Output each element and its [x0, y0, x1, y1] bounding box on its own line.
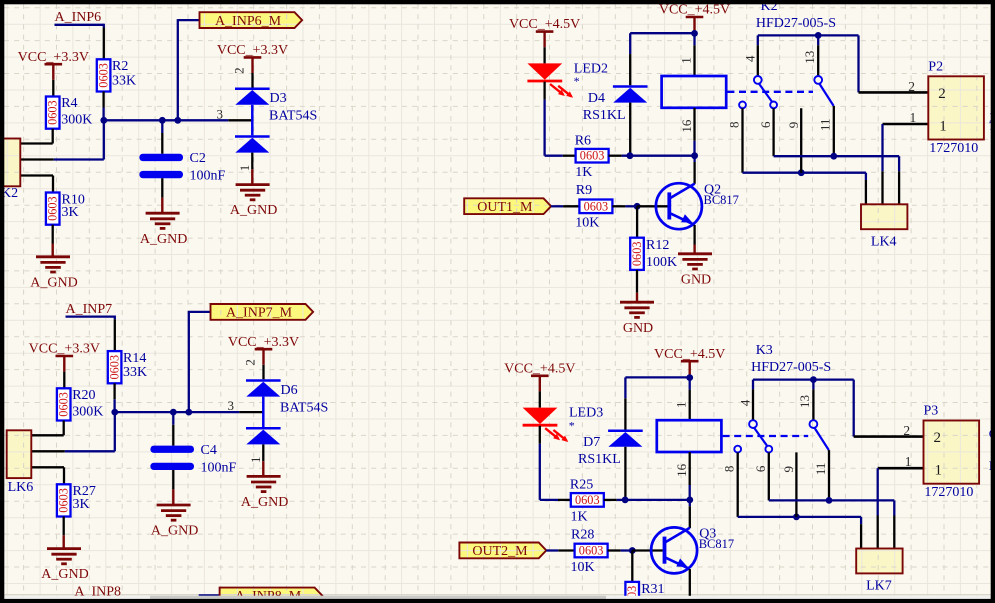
svg-text:33K: 33K — [123, 365, 147, 380]
svg-text:OUT1_M: OUT1_M — [477, 200, 533, 215]
svg-text:A_GND: A_GND — [241, 495, 288, 510]
svg-text:VCC_+4.5V: VCC_+4.5V — [504, 361, 575, 376]
svg-text:100nF: 100nF — [190, 169, 226, 184]
svg-text:HFD27-005-S: HFD27-005-S — [751, 360, 831, 375]
svg-text:0603: 0603 — [46, 100, 60, 125]
svg-text:A_INP6: A_INP6 — [55, 10, 102, 25]
svg-text:BC817: BC817 — [699, 537, 734, 551]
svg-text:10K: 10K — [575, 216, 599, 231]
svg-text:0603: 0603 — [108, 355, 122, 380]
svg-text:A_GND: A_GND — [230, 203, 277, 218]
svg-text:0603: 0603 — [46, 196, 60, 221]
svg-text:9: 9 — [786, 122, 801, 129]
svg-text:1K: 1K — [575, 165, 592, 180]
svg-text:3K: 3K — [62, 205, 79, 220]
svg-text:0603: 0603 — [580, 149, 605, 163]
svg-text:4: 4 — [742, 55, 757, 62]
svg-text:9: 9 — [781, 466, 796, 473]
svg-text:C2: C2 — [190, 151, 206, 166]
svg-text:VCC_+3.3V: VCC_+3.3V — [228, 335, 299, 350]
svg-text:16: 16 — [679, 119, 694, 133]
svg-text:LK7: LK7 — [866, 579, 892, 594]
svg-text:2: 2 — [934, 430, 942, 446]
svg-text:P3: P3 — [924, 404, 939, 419]
svg-text:6: 6 — [758, 121, 773, 128]
svg-text:R9: R9 — [576, 183, 592, 198]
svg-text:A_GND: A_GND — [151, 524, 198, 539]
svg-text:R12: R12 — [646, 238, 669, 253]
svg-text:100nF: 100nF — [201, 460, 237, 475]
svg-text:2: 2 — [938, 86, 946, 102]
svg-text:2: 2 — [243, 359, 258, 366]
svg-text:VCC_+4.5V: VCC_+4.5V — [509, 17, 580, 32]
svg-text:0603: 0603 — [584, 199, 609, 213]
svg-text:100K: 100K — [646, 255, 677, 270]
svg-text:13: 13 — [797, 395, 812, 408]
svg-text:P2: P2 — [928, 60, 943, 75]
svg-text:A_GND: A_GND — [30, 275, 77, 290]
svg-text:0603: 0603 — [630, 242, 644, 267]
svg-text:1727010: 1727010 — [929, 141, 978, 156]
svg-text:BC817: BC817 — [704, 193, 739, 207]
svg-text:K3: K3 — [756, 343, 773, 358]
svg-text:*: * — [574, 74, 580, 88]
svg-text:RS1KL: RS1KL — [578, 452, 621, 467]
svg-text:A_INP7_M: A_INP7_M — [226, 306, 293, 321]
svg-text:R4: R4 — [61, 96, 77, 111]
svg-text:BAT54S: BAT54S — [269, 109, 317, 124]
svg-text:GND: GND — [623, 321, 653, 336]
svg-text:*: * — [569, 418, 575, 432]
svg-text:GND: GND — [681, 272, 711, 287]
svg-text:0603: 0603 — [57, 488, 71, 513]
svg-text:R14: R14 — [123, 351, 146, 366]
svg-text:LK4: LK4 — [871, 234, 897, 249]
svg-text:1: 1 — [248, 457, 263, 464]
svg-text:11: 11 — [813, 463, 828, 476]
svg-text:HFD27-005-S: HFD27-005-S — [756, 16, 836, 31]
svg-text:2: 2 — [903, 423, 910, 438]
svg-text:D4: D4 — [588, 91, 605, 106]
svg-text:6: 6 — [753, 465, 768, 472]
svg-text:VCC_+4.5V: VCC_+4.5V — [654, 347, 725, 362]
svg-text:R28: R28 — [571, 527, 594, 542]
svg-text:A_INP7: A_INP7 — [66, 302, 113, 317]
svg-text:D7: D7 — [583, 435, 600, 450]
svg-text:1: 1 — [678, 57, 693, 64]
svg-text:VCC_+3.3V: VCC_+3.3V — [217, 43, 288, 58]
svg-text:A_INP6_M: A_INP6_M — [215, 14, 282, 29]
svg-text:R25: R25 — [570, 478, 593, 493]
svg-text:1K: 1K — [571, 509, 588, 524]
svg-text:0603: 0603 — [97, 63, 111, 88]
svg-text:A_GND: A_GND — [140, 232, 187, 247]
svg-text:VCC_+4.5V: VCC_+4.5V — [659, 3, 730, 18]
svg-text:D6: D6 — [281, 383, 298, 398]
svg-text:2: 2 — [908, 79, 915, 94]
svg-text:8: 8 — [726, 121, 741, 128]
svg-text:300K: 300K — [61, 113, 92, 128]
svg-text:11: 11 — [818, 118, 833, 131]
svg-text:C4: C4 — [201, 443, 217, 458]
svg-text:R6: R6 — [575, 134, 591, 149]
svg-text:33K: 33K — [112, 73, 136, 88]
svg-text:LK6: LK6 — [8, 480, 34, 495]
svg-text:A_GND: A_GND — [41, 567, 88, 582]
svg-text:1: 1 — [939, 118, 947, 134]
svg-text:D3: D3 — [270, 91, 287, 106]
svg-text:1: 1 — [935, 463, 943, 479]
svg-text:1: 1 — [237, 165, 252, 172]
svg-text:1727010: 1727010 — [924, 485, 973, 500]
svg-text:16: 16 — [674, 463, 689, 477]
svg-text:8: 8 — [722, 466, 737, 473]
svg-text:VCC_+3.3V: VCC_+3.3V — [29, 342, 100, 357]
svg-text:3: 3 — [217, 106, 224, 121]
svg-text:RS1KL: RS1KL — [583, 108, 626, 123]
svg-text:0603: 0603 — [579, 544, 604, 558]
svg-text:4: 4 — [738, 399, 753, 406]
svg-text:10K: 10K — [571, 560, 595, 575]
svg-text:0603: 0603 — [57, 392, 71, 417]
svg-text:R20: R20 — [72, 388, 95, 403]
svg-text:2: 2 — [232, 67, 247, 74]
svg-text:R31: R31 — [641, 582, 664, 597]
svg-text:3K: 3K — [73, 497, 90, 512]
svg-text:OUT2_M: OUT2_M — [472, 544, 528, 559]
svg-text:1: 1 — [910, 110, 917, 125]
svg-text:1: 1 — [674, 401, 689, 408]
svg-text:BAT54S: BAT54S — [280, 400, 328, 415]
svg-text:13: 13 — [802, 51, 817, 64]
svg-text:3: 3 — [228, 398, 235, 413]
svg-text:R2: R2 — [112, 59, 128, 74]
svg-text:300K: 300K — [72, 404, 103, 419]
svg-text:VCC_+3.3V: VCC_+3.3V — [18, 50, 89, 65]
svg-text:0603: 0603 — [575, 493, 600, 507]
svg-text:1: 1 — [905, 454, 912, 469]
